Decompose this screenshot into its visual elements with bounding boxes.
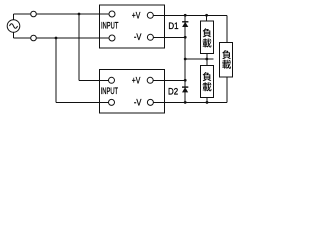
svg-text:+V: +V: [132, 10, 141, 20]
svg-text:D2: D2: [168, 86, 178, 96]
svg-text:INPUT: INPUT: [101, 86, 119, 96]
svg-text:-V: -V: [134, 97, 142, 107]
svg-text:-V: -V: [134, 32, 142, 42]
svg-text:+V: +V: [132, 75, 141, 85]
svg-text:INPUT: INPUT: [101, 21, 119, 31]
svg-text:D1: D1: [168, 21, 178, 31]
